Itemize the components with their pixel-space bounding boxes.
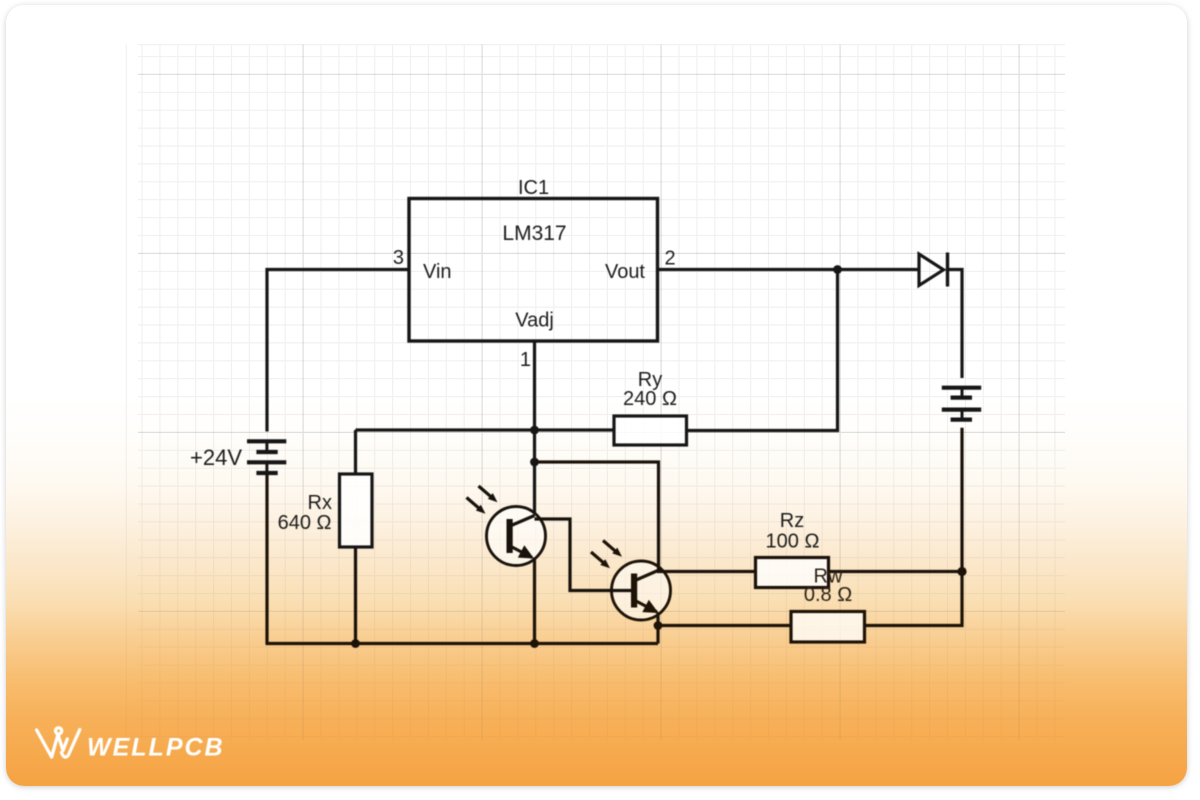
wire bottom rail — [266, 642, 659, 645]
svg-text:3: 3 — [393, 247, 404, 269]
svg-text:IC1: IC1 — [518, 177, 549, 199]
svg-text:Rz: Rz — [780, 510, 804, 532]
junction node Rz-battery2 — [957, 567, 966, 576]
wire Rz to node — [829, 570, 963, 573]
wire Rw row — [658, 624, 791, 627]
battery BT1 +24V — [247, 441, 286, 473]
junction node Q1-emitter-bottom — [530, 639, 539, 648]
junction node Vout-Ry — [833, 265, 842, 274]
junction node Rx-bottom — [351, 639, 360, 648]
light arrows Q1 — [467, 486, 498, 514]
svg-text:LM317: LM317 — [502, 222, 566, 245]
wire Ry to Vout node — [687, 270, 838, 431]
svg-text:Vout: Vout — [605, 261, 645, 283]
battery BT2 — [942, 388, 981, 420]
phototransistor Q2 — [612, 561, 671, 620]
wire Vadj horizontal to Ry — [356, 428, 615, 431]
svg-text:1: 1 — [520, 349, 531, 371]
resistor Rw — [791, 612, 865, 643]
wire Q1 collector to Q2 base — [535, 519, 632, 591]
junction node Vadj-Rx — [530, 426, 539, 435]
wire branch to Q2 collector and Rz — [535, 462, 756, 572]
svg-text:Rx: Rx — [308, 492, 332, 514]
resistor Rz — [756, 558, 829, 588]
wire Vout pin2 to diode — [658, 268, 920, 271]
svg-text:0.8 Ω: 0.8 Ω — [804, 584, 852, 606]
resistor Ry — [614, 416, 687, 445]
phototransistor Q1 — [487, 507, 546, 566]
diode D1 — [919, 254, 944, 286]
wire diode to corner — [946, 270, 962, 379]
junction node Vadj-branch — [530, 458, 539, 467]
wire battery2 to node — [960, 428, 963, 572]
wire Q2 emitter down — [656, 612, 659, 644]
svg-text:640 Ω: 640 Ω — [278, 512, 332, 534]
wire Q1 emitter down — [533, 558, 536, 644]
svg-text:2: 2 — [665, 248, 676, 270]
svg-text:240 Ω: 240 Ω — [623, 388, 677, 410]
op-amp/regulator IC1 LM317 body — [409, 199, 658, 342]
svg-text:Vin: Vin — [423, 261, 452, 283]
svg-text:100 Ω: 100 Ω — [766, 531, 820, 553]
svg-text:WELLPCB: WELLPCB — [87, 734, 225, 762]
wire Vadj vertical pin1 — [533, 341, 536, 516]
WellPCB logo mark — [37, 728, 80, 757]
junction node Q2-emitter-Rw — [654, 621, 663, 630]
wire Vin pin3 to battery top — [267, 270, 409, 432]
svg-text:+24V: +24V — [190, 445, 242, 470]
light arrows Q2 — [591, 541, 622, 569]
resistor Rx — [354, 430, 357, 474]
wire battery bottom to ground rail — [265, 473, 268, 644]
svg-text:Vadj: Vadj — [515, 310, 554, 332]
wire Rw to node corner — [865, 572, 963, 626]
